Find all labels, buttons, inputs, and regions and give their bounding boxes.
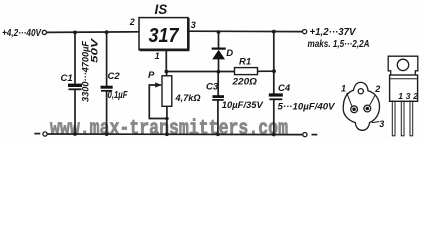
svg-text:0,1µF: 0,1µF [108, 90, 129, 101]
wire pin1 to ADJ rail [165, 51, 167, 72]
svg-text:5···10µF/40V: 5···10µF/40V [278, 102, 336, 113]
diode D [212, 49, 226, 60]
op-amp U1 regulator IS 317 box [139, 18, 189, 51]
wire pot top [166, 72, 168, 76]
capacitor C1 [68, 85, 82, 89]
svg-text:2: 2 [129, 17, 135, 27]
svg-text:3: 3 [406, 91, 411, 101]
TO-3 leader 1 [347, 93, 352, 106]
svg-text:+1,2···37V: +1,2···37V [310, 26, 357, 38]
svg-text:+4,2···40V: +4,2···40V [2, 27, 42, 39]
wire ADJ rail [166, 71, 234, 73]
wire C3 vertical [217, 72, 219, 96]
svg-text:www.max-transmitters.com: www.max-transmitters.com [50, 118, 288, 139]
wire top input [47, 31, 139, 34]
wire C2 vertical [106, 32, 108, 86]
transistor package TO-220 front view [388, 56, 418, 136]
svg-text:IS: IS [155, 2, 168, 17]
node wiper junction [165, 117, 169, 121]
svg-text:50V: 50V [90, 38, 100, 63]
node pot bottom junction [165, 132, 169, 136]
node ADJ diode/C3 junction [217, 70, 221, 74]
TO-220 body line [390, 78, 418, 80]
node C4 bottom junction [272, 133, 276, 137]
wire top output [189, 30, 303, 32]
TO-220 tab hole [397, 59, 408, 70]
svg-text:1: 1 [155, 51, 160, 61]
minus sign right [312, 134, 318, 136]
wire C4 vertical [273, 32, 275, 94]
TO-220 leg 1 [392, 101, 395, 136]
TO-220 leg 2 [401, 101, 404, 136]
svg-text:R1: R1 [239, 56, 251, 67]
TO-3 pin 2 [364, 105, 371, 112]
svg-text:maks. 1,5···2,2A: maks. 1,5···2,2A [308, 39, 370, 50]
node ADJ pin1 junction [165, 70, 169, 74]
node C1 bottom junction [73, 132, 77, 136]
svg-text:4,7kΩ: 4,7kΩ [175, 93, 202, 104]
terminal gnd left [43, 132, 47, 136]
svg-text:220Ω: 220Ω [231, 76, 257, 87]
TO-3 pin 1 [351, 106, 358, 113]
terminal output + [303, 30, 307, 34]
node diode top junction [217, 30, 221, 34]
TO-220 tab [388, 56, 418, 75]
TO-3 mounting hole [358, 89, 363, 94]
TO-220 body [390, 75, 418, 101]
svg-text:3: 3 [191, 20, 196, 30]
TO-3 leader 2 [370, 95, 376, 106]
wire bottom ground rail [48, 133, 303, 136]
transistor package TO-3 bottom view [343, 82, 379, 130]
svg-text:1: 1 [341, 83, 346, 93]
svg-text:C2: C2 [108, 71, 121, 82]
svg-text:3: 3 [379, 119, 384, 129]
svg-text:C4: C4 [278, 83, 291, 94]
node C4 top junction [272, 30, 276, 34]
resistor R1 [235, 68, 258, 75]
svg-text:10µF/35V: 10µF/35V [222, 100, 264, 111]
svg-text:D: D [226, 48, 233, 59]
svg-text:2: 2 [412, 91, 418, 101]
svg-text:1: 1 [398, 91, 403, 101]
svg-text:317: 317 [149, 25, 180, 47]
svg-text:C1: C1 [61, 73, 73, 84]
svg-text:2: 2 [374, 84, 380, 94]
terminal input + [42, 30, 46, 34]
svg-text:P: P [148, 70, 155, 81]
capacitor C4 [269, 95, 283, 99]
node input/C1 junction [73, 31, 77, 35]
node R1/C4 junction [272, 69, 276, 73]
wire pot bottom [166, 106, 168, 134]
TO-220 leg 3 [410, 101, 413, 136]
TO-3 leader 3 [372, 122, 380, 123]
svg-text:C3: C3 [206, 82, 219, 93]
capacitor C3 [212, 97, 224, 100]
capacitor C2 [101, 87, 113, 91]
wire C1 vertical [74, 32, 76, 84]
terminal gnd right [303, 133, 307, 137]
wire R1 right lead [258, 70, 275, 72]
node C3 bottom junction [216, 132, 220, 136]
node C2 bottom junction [105, 132, 109, 136]
potentiometer P [155, 76, 172, 107]
node C2 top junction [105, 30, 109, 34]
wire pot wiper L-link [149, 85, 167, 119]
wire diode column [218, 32, 220, 47]
minus sign left [34, 133, 40, 135]
